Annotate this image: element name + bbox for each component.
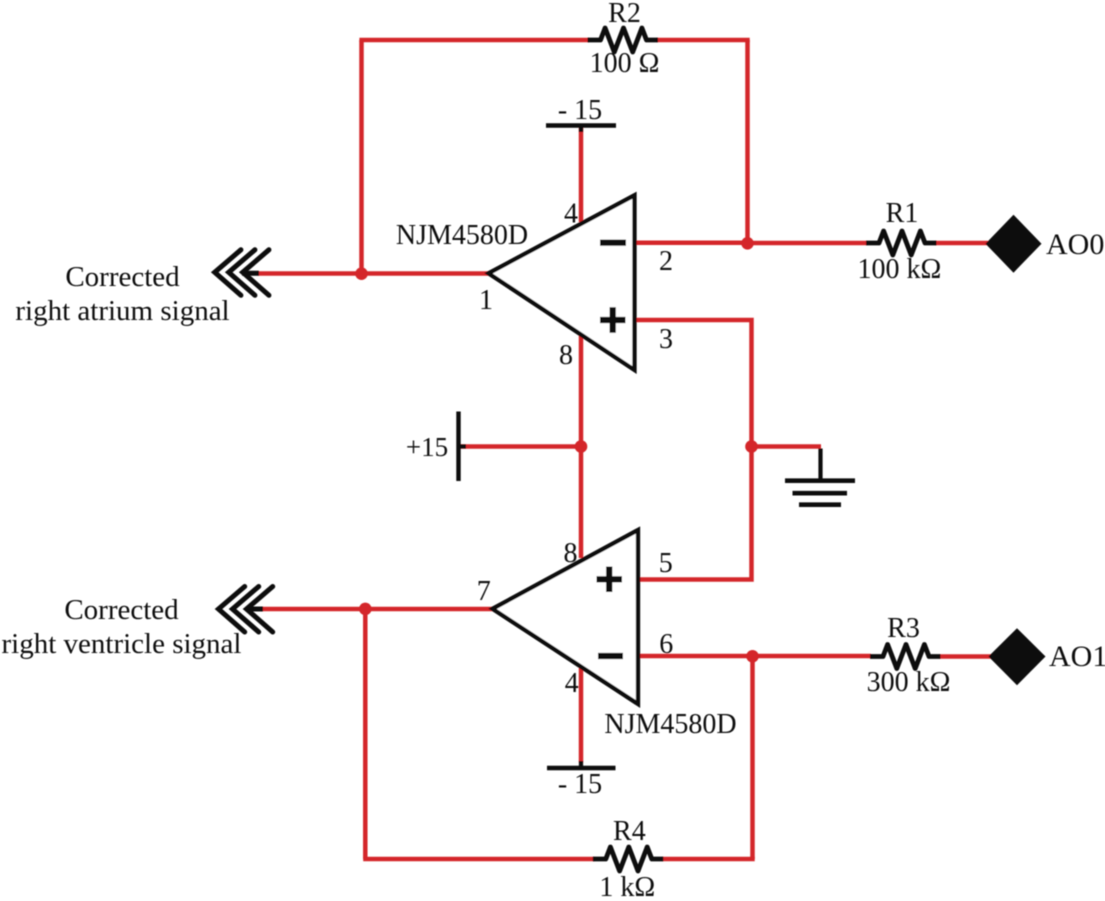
wire +15 supply	[460, 444, 581, 449]
ground	[785, 449, 855, 505]
resistor R1	[866, 231, 937, 255]
wire U1 pin 2 to junction	[635, 240, 748, 245]
-15 bottom nub	[579, 761, 583, 767]
positive supply +15 bar	[456, 412, 460, 482]
svg-text:- 15: - 15	[558, 95, 602, 126]
svg-text:right ventricle signal: right ventricle signal	[2, 628, 242, 660]
resistor R2	[588, 28, 659, 52]
junction dot node bottom input	[359, 603, 372, 616]
negative supply -15 top bar	[546, 123, 616, 128]
junction dot node +15 rail	[575, 440, 588, 453]
wire top feedback horizontal left of R2	[359, 38, 589, 43]
junction dot node top input	[355, 267, 368, 280]
svg-text:1: 1	[479, 285, 493, 316]
output terminal AO1 diamond	[989, 628, 1046, 685]
svg-text:R1: R1	[886, 198, 919, 229]
wire top input to U1 output pin 1	[258, 271, 489, 276]
svg-text:+15: +15	[406, 432, 448, 462]
svg-text:7: 7	[477, 576, 491, 607]
input arrow bottom (off-page connector)	[219, 587, 273, 633]
input arrow top (off-page connector)	[215, 250, 269, 295]
wire ground tap	[752, 444, 822, 449]
wire bottom input to U2 output pin 7	[262, 607, 493, 612]
svg-text:300 kΩ: 300 kΩ	[867, 667, 951, 698]
resistor R3	[870, 645, 941, 669]
junction dot node U2 pin 6 / R3	[746, 650, 759, 663]
wire U1 pin 3 down to U2 pin 5	[635, 320, 752, 580]
wire junction to R1	[748, 241, 868, 246]
wire U2 pin 4 to -15	[579, 668, 584, 763]
op-amp U2	[493, 530, 639, 704]
op-amp U1 plus input sign	[600, 307, 626, 333]
wire bottom feedback vertical left	[363, 609, 368, 859]
svg-text:2: 2	[659, 246, 673, 277]
op-amp U2 plus input sign	[597, 567, 623, 593]
wire U2 pin 6 to junction	[638, 654, 753, 659]
junction dot node U1 pin 2 / R1	[741, 237, 754, 250]
op-amp U1 minus input sign	[600, 240, 626, 246]
op-amp U1	[489, 195, 635, 370]
svg-text:4: 4	[564, 199, 578, 230]
svg-text:- 15: - 15	[558, 769, 602, 800]
svg-text:4: 4	[565, 668, 579, 699]
svg-text:Corrected: Corrected	[65, 261, 180, 293]
output terminal AO0 diamond	[986, 215, 1042, 273]
resistor R4	[593, 847, 664, 871]
svg-text:100 Ω: 100 Ω	[590, 48, 660, 79]
wire -15 to U1 pin 4	[579, 127, 584, 222]
svg-text:8: 8	[564, 538, 578, 569]
svg-text:AO0: AO0	[1046, 228, 1104, 261]
svg-text:AO1: AO1	[1049, 640, 1105, 673]
wire bottom feedback horizontal right of R4	[663, 857, 755, 862]
svg-text:5: 5	[659, 548, 673, 579]
wire top feedback horizontal right of R2	[657, 38, 750, 43]
svg-text:right atrium signal: right atrium signal	[15, 295, 229, 327]
svg-text:6: 6	[659, 629, 673, 660]
svg-text:8: 8	[559, 340, 573, 371]
svg-text:R2: R2	[608, 0, 641, 29]
svg-text:NJM4580D: NJM4580D	[604, 709, 736, 740]
-15 top nub	[579, 127, 583, 132]
svg-text:R3: R3	[887, 613, 920, 644]
negative supply -15 bottom bar	[547, 766, 616, 771]
svg-text:100 kΩ: 100 kΩ	[857, 254, 941, 285]
svg-text:R4: R4	[613, 816, 646, 847]
wire left feedback vertical	[359, 40, 364, 274]
svg-text:1 kΩ: 1 kΩ	[599, 872, 655, 901]
wire right feedback vertical	[745, 40, 750, 243]
+15 nub	[460, 444, 466, 448]
svg-text:3: 3	[659, 324, 673, 355]
op-amp U2 minus input sign	[598, 653, 623, 659]
wire R1 to AO0 diamond	[936, 241, 989, 246]
wire bottom feedback vertical right	[750, 656, 755, 859]
wire middle vertical pin 8 to pin 8	[579, 335, 584, 558]
wire bottom feedback horizontal left of R4	[363, 857, 594, 862]
junction dot node ground tap	[745, 440, 758, 453]
svg-text:NJM4580D: NJM4580D	[396, 220, 528, 251]
svg-text:Corrected: Corrected	[64, 594, 179, 626]
wire R3 to AO1 diamond	[940, 654, 993, 659]
wire junction to R3	[753, 654, 872, 659]
